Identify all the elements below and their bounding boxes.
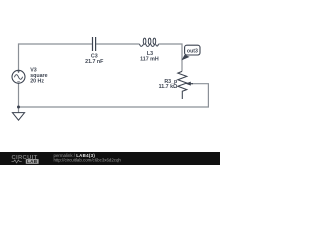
wire bottom rail bbox=[19, 106, 210, 108]
ground bbox=[12, 113, 24, 121]
circuitlab logo bbox=[12, 155, 39, 164]
wire left rail bottom bbox=[18, 83, 20, 112]
svg-text:11.7 kΩ: 11.7 kΩ bbox=[159, 84, 178, 90]
potentiometer R3_p bbox=[178, 71, 187, 99]
node flag out3 bbox=[181, 45, 200, 60]
wire left rail top bbox=[18, 43, 20, 70]
voltage source V3 bbox=[12, 70, 25, 83]
wiper arrow bbox=[185, 82, 190, 86]
wire top rail between C3 and L3 bbox=[96, 43, 140, 45]
svg-text:21.7 nF: 21.7 nF bbox=[85, 59, 104, 65]
node junction dot bbox=[17, 106, 20, 109]
wire wiper to right rail bbox=[193, 84, 209, 107]
wire top rail left segment bbox=[19, 43, 92, 45]
svg-text:20 Hz: 20 Hz bbox=[30, 79, 44, 85]
capacitor C3 bbox=[93, 37, 96, 51]
footer bar bbox=[0, 152, 220, 165]
svg-text:117 mH: 117 mH bbox=[140, 56, 159, 62]
wire top rail L3 to right corner and right rail down bbox=[158, 44, 182, 71]
svg-text:http://circuitlab.com/c6bc3x6d: http://circuitlab.com/c6bc3x6d2cqh bbox=[54, 158, 122, 163]
svg-text:out3: out3 bbox=[187, 49, 198, 55]
svg-text:LAB: LAB bbox=[27, 159, 38, 164]
inductor L3 bbox=[140, 38, 159, 46]
